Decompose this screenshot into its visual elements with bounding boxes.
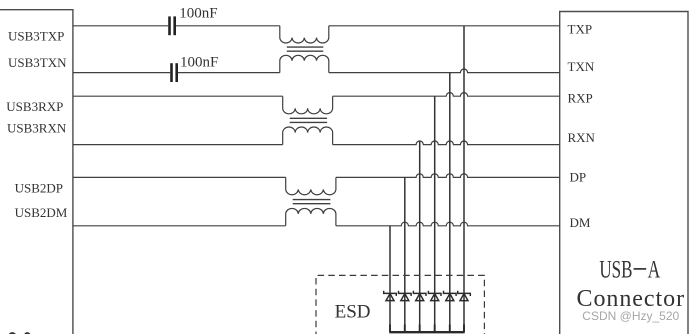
- wire TXN cap2-to-choke segment: [178, 72, 280, 74]
- svg-text:A: A: [648, 255, 661, 283]
- cut-off marks bottom left: [9, 332, 17, 334]
- wire TXN left segment: [73, 72, 170, 74]
- svg-text:DM: DM: [570, 215, 591, 230]
- wire RXN choke-to-connector with hops: [333, 141, 560, 145]
- bold lower vertical stubs: [390, 325, 464, 333]
- svg-text:USB3TXP: USB3TXP: [8, 29, 64, 44]
- vertical tap wire from TXP to diode D6: [463, 26, 465, 332]
- svg-text:100nF: 100nF: [179, 6, 217, 22]
- connector title USB-A: [599, 255, 660, 283]
- vertical tap wire from RXN to diode D3: [419, 141, 421, 332]
- wire RXP choke-to-connector with hops: [333, 93, 560, 97]
- wire RXP left segment: [73, 95, 283, 97]
- svg-text:Connector: Connector: [577, 286, 686, 312]
- TVS diode D6: [458, 291, 471, 301]
- svg-text:USB2DM: USB2DM: [15, 205, 68, 220]
- ground rail of ESD diodes: [389, 331, 464, 333]
- left device box: [0, 10, 73, 334]
- svg-text:USB3RXP: USB3RXP: [6, 99, 63, 114]
- vertical tap wire from TXN to diode D5: [449, 73, 451, 332]
- TVS diode D5: [444, 291, 457, 301]
- TVS diode D2: [399, 291, 412, 301]
- svg-text:USB3TXN: USB3TXN: [8, 55, 67, 70]
- wire DP left segment: [73, 176, 286, 178]
- wire DM left segment: [73, 225, 286, 227]
- wire RXN left segment: [73, 144, 283, 146]
- svg-text:DP: DP: [570, 170, 587, 185]
- wire TXN choke-to-connector with hop: [329, 69, 560, 73]
- right connector box J1: [560, 12, 688, 334]
- svg-text:CSDN @Hzy_520: CSDN @Hzy_520: [582, 309, 679, 323]
- wire DM choke-to-connector with hops: [336, 222, 560, 226]
- svg-text:USB: USB: [599, 255, 632, 283]
- TVS diode D3: [413, 291, 426, 301]
- wire TXP left segment: [73, 25, 168, 27]
- vertical tap wire from DM to diode D1: [389, 226, 391, 332]
- capacitor C2 100nF: [172, 55, 219, 82]
- svg-text:ESD: ESD: [335, 301, 371, 322]
- svg-text:RXP: RXP: [568, 91, 593, 106]
- wire TXP cap1-to-choke segment: [176, 25, 280, 27]
- svg-text:USB2DP: USB2DP: [15, 181, 63, 196]
- common-mode choke L3 (USB2 pair): [286, 177, 336, 225]
- TVS diode D1: [384, 291, 397, 301]
- svg-text:RXN: RXN: [568, 130, 596, 145]
- capacitor C1 100nF: [170, 6, 218, 36]
- svg-text:100nF: 100nF: [180, 55, 218, 71]
- svg-text:TXP: TXP: [568, 22, 593, 37]
- svg-text:USB3RXN: USB3RXN: [7, 121, 67, 136]
- ESD dashed box: [316, 275, 484, 334]
- wire DP choke-to-connector with hops: [336, 174, 560, 178]
- vertical tap wire from RXP to diode D4: [434, 96, 436, 331]
- svg-text:TXN: TXN: [568, 59, 595, 74]
- common-mode choke L1 (TX pair): [280, 26, 329, 73]
- wire TXP choke-to-connector segment: [329, 25, 560, 27]
- vertical tap wire from DP to diode D2: [404, 177, 406, 331]
- common-mode choke L2 (RX pair): [283, 96, 333, 144]
- TVS diode D4: [428, 291, 441, 301]
